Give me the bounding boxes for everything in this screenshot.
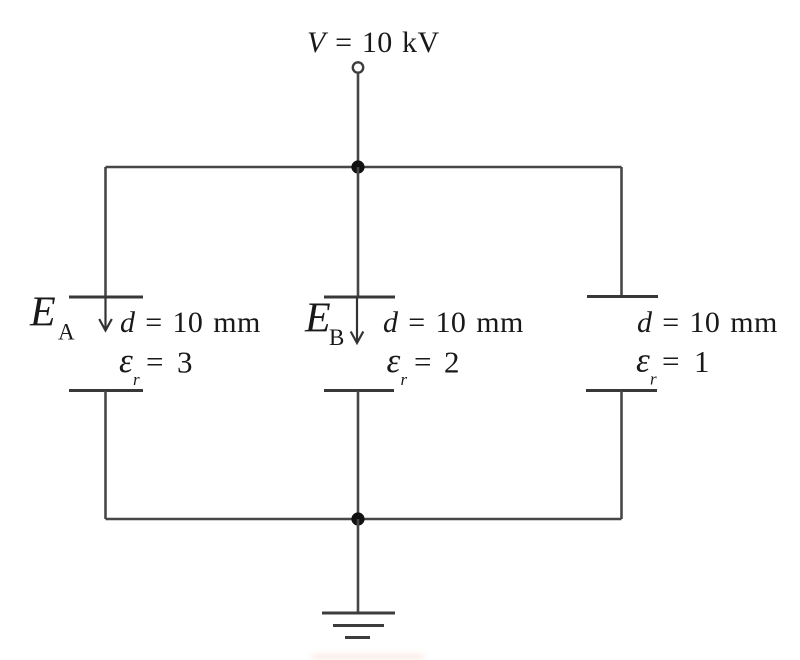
svg-text:B: B <box>329 325 344 350</box>
capacitor C top plate <box>587 295 658 298</box>
svg-text:ε: ε <box>636 341 650 380</box>
arrow: field direction in capacitor B <box>351 298 364 343</box>
wire: left branch upper <box>104 167 107 297</box>
wire: right branch upper <box>620 167 623 297</box>
value label epsilon_r = 2 (capacitor B) <box>387 341 460 389</box>
wire: top bus <box>106 166 622 169</box>
wire: right branch lower <box>620 391 623 519</box>
svg-text:ε: ε <box>119 341 133 380</box>
wire: left branch lower <box>104 391 107 519</box>
svg-text:E: E <box>29 290 56 336</box>
svg-text:V = 10 kV: V = 10 kV <box>307 26 440 59</box>
svg-text:E: E <box>304 296 331 342</box>
svg-text:d = 10 mm: d = 10 mm <box>637 306 778 339</box>
wire: middle branch lower <box>357 391 360 519</box>
svg-text:2: 2 <box>444 345 460 380</box>
value label epsilon_r = 3 (capacitor A) <box>119 341 193 389</box>
svg-text:=: = <box>662 344 679 379</box>
capacitor C bottom plate <box>586 389 657 392</box>
svg-text:d = 10 mm: d = 10 mm <box>120 306 261 339</box>
svg-text:3: 3 <box>177 345 193 380</box>
svg-text:=: = <box>146 344 163 379</box>
svg-text:r: r <box>133 370 140 389</box>
ground symbol <box>322 613 395 638</box>
svg-text:=: = <box>414 344 431 379</box>
value label epsilon_r = 1 (capacitor C) <box>636 341 710 389</box>
capacitor A bottom plate <box>69 389 143 392</box>
wire: source terminal down to top bus <box>357 73 360 167</box>
terminal: open circle input <box>353 62 363 72</box>
svg-text:ε: ε <box>387 341 401 380</box>
wire: bottom bus <box>106 518 622 521</box>
faint cropped watermark remnant at bottom edge <box>312 654 424 659</box>
node: bottom junction dot <box>351 512 364 525</box>
wire: middle branch upper <box>357 167 360 297</box>
capacitor B bottom plate <box>324 389 394 392</box>
node: top junction dot <box>351 160 364 173</box>
svg-text:r: r <box>401 370 408 389</box>
svg-text:1: 1 <box>694 344 710 379</box>
capacitor B top plate <box>324 296 395 299</box>
svg-text:r: r <box>650 370 657 389</box>
wire: junction down to ground <box>357 519 360 613</box>
arrow: field direction in capacitor A <box>99 298 112 331</box>
svg-text:d = 10 mm: d = 10 mm <box>383 306 524 339</box>
capacitor A top plate <box>69 296 143 299</box>
svg-text:A: A <box>58 320 75 345</box>
